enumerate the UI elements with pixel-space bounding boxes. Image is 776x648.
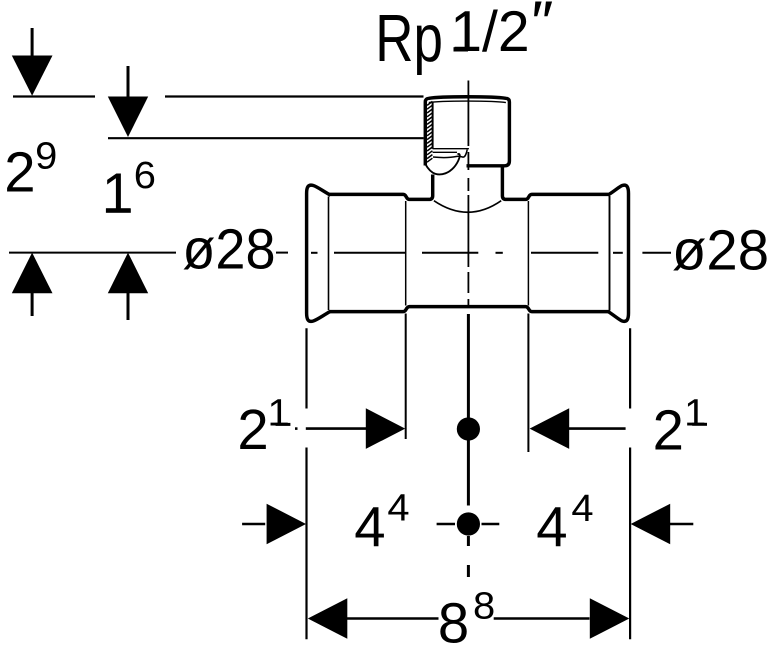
svg-text:6: 6 <box>134 155 156 197</box>
svg-text:Rp: Rp <box>375 0 443 75</box>
svg-text:1: 1 <box>268 392 290 434</box>
svg-text:1: 1 <box>102 162 133 225</box>
label diameter 28 left <box>182 218 275 281</box>
dimension 2^9 down arrow <box>12 28 53 96</box>
svg-text:ø28: ø28 <box>182 218 275 281</box>
bottom outline of fitting <box>330 307 609 312</box>
saddle intersection arc <box>434 201 501 213</box>
svg-text:8: 8 <box>438 591 469 648</box>
insertion depth line right <box>527 201 529 306</box>
svg-text:2: 2 <box>653 399 684 462</box>
label 1^6 <box>102 155 156 225</box>
vertical centerline upper <box>467 81 469 308</box>
horizontal centerline <box>311 252 671 254</box>
dimension 8^8 bottom <box>308 585 630 648</box>
extension of insertion depth right <box>527 314 529 453</box>
bead crease right <box>609 196 611 311</box>
label diameter 28 right <box>672 218 769 281</box>
svg-text:1/2: 1/2 <box>450 0 529 64</box>
dimension 1^6 up arrow <box>108 253 148 320</box>
label 2^9 <box>4 135 57 203</box>
center dashes at dot row 2 <box>437 523 500 526</box>
thread relief line <box>433 151 457 153</box>
top outline: left socket, step, body, branch left wall <box>330 175 433 200</box>
extension of insertion depth left <box>405 314 407 440</box>
dimension 4^4 right <box>536 488 693 559</box>
svg-text:4: 4 <box>354 496 385 559</box>
center dot upper <box>457 417 480 440</box>
insertion depth line left <box>405 201 407 306</box>
dimension 2^1 left <box>237 392 405 461</box>
bead crease left <box>328 197 330 311</box>
break squiggle <box>425 154 460 175</box>
vertical centerline lower <box>467 314 470 577</box>
dimension 2^1 right <box>530 392 707 461</box>
extension line left (bead end) <box>305 328 307 639</box>
svg-text:2: 2 <box>237 398 268 461</box>
tee fitting: right press bead <box>608 185 629 321</box>
internal shoulder line <box>433 148 469 150</box>
top outline: right socket, step, body, branch right wall <box>502 166 608 199</box>
extension line right (bead end) <box>629 328 631 639</box>
coupler top face inner edge <box>429 101 506 103</box>
svg-text:2: 2 <box>4 141 35 204</box>
dimension 1^6 down arrow <box>108 66 148 137</box>
dimension 2^9 up arrow <box>12 253 53 316</box>
threaded coupler outer body <box>425 97 509 166</box>
svg-text:9: 9 <box>35 135 57 177</box>
double prime mark <box>534 2 552 17</box>
svg-text:8: 8 <box>473 585 495 627</box>
svg-text:4: 4 <box>387 488 409 530</box>
thread hatch band <box>427 101 432 162</box>
svg-text:ø28: ø28 <box>672 218 769 281</box>
reference line C (centerline level left) <box>9 252 288 254</box>
dimension 4^4 left <box>242 488 409 559</box>
reference line A (top of thread) <box>13 95 424 97</box>
thread bore line <box>432 102 434 149</box>
tee fitting: left press bead <box>307 185 331 321</box>
svg-text:4: 4 <box>536 496 567 559</box>
label Rp1/2 <box>375 0 529 75</box>
center dot lower <box>457 512 480 535</box>
svg-text:4: 4 <box>571 488 593 530</box>
reference line B (thread depth) <box>108 137 424 139</box>
svg-text:1: 1 <box>684 392 706 434</box>
thread runout profile <box>433 150 467 158</box>
